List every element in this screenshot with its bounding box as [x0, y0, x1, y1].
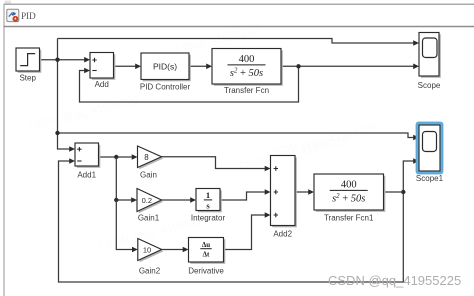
wire: branch down to Gain1 [116, 157, 132, 200]
svg-text:Δu: Δu [202, 241, 210, 249]
wire: Integrator output to Add2 input2 [220, 192, 265, 200]
wire: branch down to Gain2 [116, 200, 132, 250]
svg-text:Gain2: Gain2 [139, 266, 161, 275]
wire: top feedback to Add - [80, 66, 299, 102]
wire: Add1 output to Gain [99, 156, 133, 158]
svg-text:8: 8 [144, 153, 149, 162]
wire: long line to Scope1 input1 [58, 133, 414, 138]
faint tiled watermark [28, 24, 378, 253]
wire: TF1 junction riser to Scope1 input2 [403, 161, 414, 192]
transfer function block Transfer Fcn1 [314, 174, 385, 222]
sink block Scope1 (selected) [416, 122, 444, 183]
svg-text:PID: PID [21, 12, 36, 22]
node: junction after Add1 [114, 155, 118, 159]
svg-text:1: 1 [206, 190, 210, 200]
node: junction lower tee [55, 131, 59, 135]
svg-text:Δt: Δt [203, 251, 210, 259]
controller block PID Controller [140, 53, 191, 92]
svg-text:PID(s): PID(s) [153, 61, 177, 71]
svg-text:Add2: Add2 [273, 229, 292, 238]
transfer function block Transfer Fcn [212, 49, 283, 96]
svg-text:400: 400 [341, 180, 357, 191]
integrator block Integrator [191, 189, 226, 223]
wire: Gain output to Add2 input1 [162, 157, 266, 169]
svg-text:Gain: Gain [140, 170, 157, 179]
wire: bottom feedback from TF1 junction to Add1 - [59, 161, 404, 282]
wire: step output to Add + [40, 59, 85, 61]
wire: Transfer Fcn output to Scope input2 [281, 65, 414, 67]
svg-text:Transfer Fcn1: Transfer Fcn1 [324, 213, 374, 222]
node: junction at TF1 output [401, 190, 405, 194]
node: junction at Transfer Fcn output [296, 64, 300, 68]
sink block Scope [418, 33, 441, 90]
window chrome: left border [3, 4, 5, 296]
svg-text:Derivative: Derivative [188, 266, 224, 275]
svg-text:Integrator: Integrator [191, 213, 226, 222]
derivative block Derivative [188, 238, 225, 276]
sum block Add [90, 53, 115, 90]
window chrome: tab notch [5, 1, 12, 5]
svg-text:Add1: Add1 [77, 170, 96, 179]
source block Step [16, 48, 41, 82]
node: junction at Gain1 branch [114, 198, 118, 202]
gain block Gain (8) [138, 146, 164, 179]
sum block Add2 [271, 156, 297, 239]
window chrome: header top border [4, 3, 474, 5]
svg-text:Gain1: Gain1 [138, 213, 160, 222]
svg-text:400: 400 [239, 54, 255, 65]
wire: Gain2 output to Derivative [162, 249, 184, 251]
tab icon [7, 9, 19, 22]
svg-text:Add: Add [95, 80, 109, 89]
svg-text:10: 10 [143, 245, 151, 254]
svg-text:Scope1: Scope1 [416, 174, 444, 183]
svg-text:PID Controller: PID Controller [140, 83, 191, 92]
wire: PID output to Transfer Fcn [189, 65, 207, 67]
window chrome: header bottom border [4, 26, 474, 28]
wire: TF1 output to junction [384, 191, 404, 193]
svg-text:Transfer Fcn: Transfer Fcn [224, 86, 269, 95]
wire: Add2 output to Transfer Fcn1 [295, 191, 309, 193]
gain block Gain1 (0.2) [137, 189, 163, 223]
wire: top line to Scope input1 [58, 39, 414, 44]
wire: Gain1 output to Integrator [162, 199, 191, 201]
wire: main vertical from top line down to Add1 + elbow [58, 39, 70, 150]
wire: Add output to PID Controller [114, 65, 136, 67]
node: junction at Step output [55, 58, 59, 62]
svg-text:CSDN @qq_41955225: CSDN @qq_41955225 [328, 273, 461, 288]
svg-text:Step: Step [19, 73, 36, 82]
wire: Derivative output to Add2 input3 [224, 215, 266, 250]
gain block Gain2 (10) [138, 239, 164, 276]
sum block Add1 [75, 143, 100, 179]
svg-text:Scope: Scope [418, 81, 441, 90]
svg-text:0.2: 0.2 [142, 196, 152, 205]
